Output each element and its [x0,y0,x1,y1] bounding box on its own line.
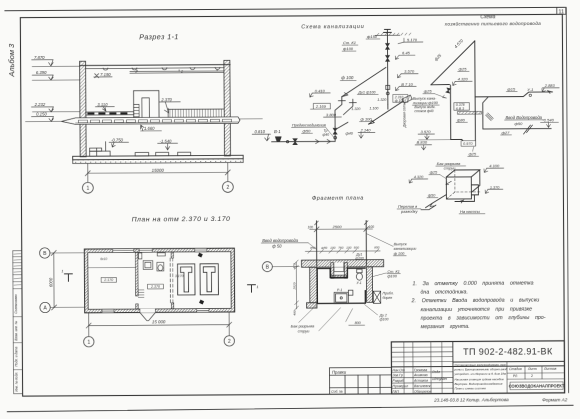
plan: grid bubble А (left) [40,302,85,313]
svg-text:ф25: ф25 [424,89,433,94]
section: right ground line [240,118,262,120]
section: ladder [134,104,140,123]
svg-text:СОЮЗВОДОКАНАЛПРОЕКТ: СОЮЗВОДОКАНАЛПРОЕКТ [509,383,565,388]
svg-text:15000: 15000 [152,168,165,173]
svg-text:Согласовано: Согласовано [14,294,18,314]
svg-text:11: 11 [558,9,564,15]
svg-text:ф50: ф50 [514,121,523,126]
fragment: right wall [366,267,372,303]
svg-text:2500: 2500 [332,224,343,229]
section: base slab [73,155,244,163]
sewer: second chain [343,99,356,115]
svg-text:ф 100: ф 100 [394,252,405,256]
sewer: stack fittings [385,43,389,94]
sewer: boxed 2.310 ф100 [393,94,408,102]
tank: flag 4.320 left [409,175,428,183]
svg-text:Внутрен. Водопроводоснабжения: Внутрен. Водопроводоснабжения [455,382,503,386]
section: bottom dimension 15000 [85,163,230,182]
svg-text:Подп. и дата: Подп. и дата [14,346,18,366]
fragment: interior pipe run (left+bottom) [317,268,365,303]
plan: middle room fixtures (sink, WC) [138,253,165,271]
svg-text:Альбом 3: Альбом 3 [7,43,16,78]
svg-text:23.148-03.8 12 Копир. Аль: 23.148-03.8 12 Копир. Альбертова [433,397,509,402]
svg-text:канализации: канализации [394,247,417,251]
svg-text:В.830: В.830 [417,140,428,145]
sewer: flag 3.800 [323,112,341,117]
section: left wall [80,61,87,157]
svg-text:100: 100 [369,225,375,229]
svg-text:2: 2 [180,69,183,73]
svg-text:-0.750: -0.750 [111,137,124,142]
tank: outlet pipe right [455,185,479,203]
fragment: shower tray [334,292,348,303]
svg-text:1: 1 [87,340,90,346]
svg-text:Проверил: Проверил [393,384,409,388]
svg-text:Правки: Правки [332,369,347,374]
tank: hidden dashed edges [446,170,480,199]
water: branch upper right [475,92,553,129]
svg-text:850: 850 [374,245,379,249]
section: 1.660 label [140,125,161,131]
svg-text:Ду1 ф100: Ду1 ф100 [357,90,376,94]
svg-text:6.45: 6.45 [402,50,411,55]
plan: grid bubble В (fragment leader) [262,261,299,271]
section: railing strip right [168,109,224,117]
svg-text:4.320: 4.320 [414,175,424,179]
paper bottom edge line [7,405,573,411]
svg-text:Ст. К1: Ст. К1 [343,40,356,45]
fragment: top wall band [302,260,384,279]
section: elevation mark 2.232 [31,102,80,112]
sewer: flag 2.140 [358,127,375,138]
svg-text:100: 100 [346,245,351,249]
svg-text:струи: струи [298,328,310,333]
title block: signature rows text [392,368,448,394]
fragment: left wall bottom foot [307,303,317,308]
fragment: inner U pipe in niche [334,263,344,271]
sheet number box top-right [557,7,566,14]
svg-text:ф50: ф50 [428,194,436,198]
svg-text:Схема: Схема [480,14,495,20]
svg-text:3.110: 3.110 [97,102,108,107]
section: 7.190 mark [94,72,113,78]
left stamp strip [13,251,23,394]
section: right wall [224,60,231,156]
svg-text:канализации уточняются при: канализации уточняются при привязке [421,306,533,313]
svg-text:-1.540: -1.540 [160,139,173,144]
plan: room level label 2.170 [101,277,116,282]
svg-text:Выпуск кана-: Выпуск кана- [413,97,437,101]
svg-text:ф100: ф100 [355,256,364,260]
svg-text:6х10: 6х10 [100,257,107,261]
svg-text:устройст. из сборного ж.б. 6см: устройст. из сборного ж.б. 6см 18м [453,372,506,376]
svg-text:1.320: 1.320 [351,107,360,111]
svg-text:2: 2 [531,374,533,378]
svg-text:0.150: 0.150 [36,111,47,116]
sewer: flag 0.410 [309,88,330,97]
svg-text:ТП 902-2-482.91-ВК: ТП 902-2-482.91-ВК [463,346,553,357]
svg-text:Ввод Водопровода: Ввод Водопровода [505,115,542,120]
svg-text:Предвосоединения: Предвосоединения [292,123,326,127]
section: elevation mark 0.150 + ground line [25,111,61,121]
fragment: interior pipe run (upper) [317,268,365,277]
svg-text:2.370: 2.370 [150,285,160,289]
svg-text:В 7 10: В 7 10 [401,82,413,87]
svg-text:Разрез 1-1: Разрез 1-1 [139,32,179,41]
plan: room level label 2.370 [148,284,164,289]
svg-text:100: 100 [330,246,335,250]
svg-text:800: 800 [355,321,361,325]
svg-text:2: 2 [226,185,229,191]
plan: section mark T1 right [247,285,255,293]
svg-text:Стадия: Стадия [509,367,522,371]
svg-text:5.170: 5.170 [407,37,418,42]
svg-text:7.190: 7.190 [100,72,111,77]
svg-text:2.883: 2.883 [544,83,556,88]
svg-text:-1.540: -1.540 [542,118,554,123]
sewer: left descending chain [333,97,346,142]
plan: black corner markers [198,253,203,258]
section: elevation mark 7.870 [32,55,80,67]
fragment: Ст К1 label [387,270,399,279]
svg-text:2.370: 2.370 [160,97,172,102]
svg-text:6000: 6000 [48,277,53,287]
plan: machine 1 (T-shaped) [178,264,195,295]
water: floor sleeve hatch [457,111,481,114]
revision table (left of title block) [329,367,391,394]
tank: overflow pipe left [425,195,446,208]
svg-text:0.410: 0.410 [315,88,326,93]
svg-text:2.170: 2.170 [103,278,113,282]
sewer: boxed 2.169 [310,103,330,109]
tank: isometric box [446,170,480,199]
svg-text:500: 500 [354,245,359,249]
svg-text:Схема канализации: Схема канализации [301,24,364,30]
svg-text:1.660: 1.660 [144,126,155,131]
svg-text:1: 1 [256,285,258,289]
sewer scheme: vent stack [375,29,411,104]
svg-text:Лодл: Лодл [431,370,440,374]
svg-text:ф 50: ф 50 [272,243,282,248]
svg-text:3.170: 3.170 [175,274,184,278]
svg-text:Взам. инв. №: Взам. инв. № [14,320,18,340]
svg-text:ф 100: ф 100 [360,116,372,121]
fragment: left vertical dims [294,260,298,310]
title block: upper-left small rows (изм/кол.уч) [391,342,453,394]
svg-text:0.970: 0.970 [463,142,473,146]
svg-text:ф50: ф50 [321,246,327,250]
section: basement equipment steps [90,142,111,157]
svg-text:6.В.3: 6.В.3 [456,107,464,111]
section: crane beam line with ticks [130,69,224,73]
water: riser triangle (hypotenuse) [431,41,476,146]
water: valve on riser A top [446,88,451,93]
plan: window openings top wall [113,248,207,252]
plan: section mark T1 left [64,274,72,282]
section: -0.750 label [109,137,129,147]
section: grid bubble 1 [82,182,93,193]
svg-text:Инв. № подл.: Инв. № подл. [14,372,18,392]
svg-text:ф25: ф25 [430,171,438,175]
svg-text:2.169: 2.169 [315,104,327,109]
svg-text:1: 1 [86,186,89,192]
svg-text:Листов: Листов [543,367,557,371]
svg-text:2.232: 2.232 [34,102,46,107]
svg-text:Фрагмент плана: Фрагмент плана [312,196,364,202]
svg-text:0.810: 0.810 [255,129,266,134]
svg-text:Василевск: Василевск [414,384,431,388]
fragment: sink [348,290,353,295]
fragment: toilet [356,269,362,280]
svg-text:ф25: ф25 [459,66,468,71]
svg-text:стоков ф40: стоков ф40 [414,109,433,113]
svg-text:Формат А2: Формат А2 [542,397,568,402]
water: flag -1.540 [540,118,558,128]
water: flag 2.883 [542,83,559,92]
svg-text:Зав.Гр: Зав.Гр [393,374,403,378]
svg-text:Р-1: Р-1 [337,288,342,292]
section: basement floor small blocks [135,152,191,156]
svg-text:Обгорелов: Обгорелов [414,390,432,394]
svg-text:ф40: ф40 [346,132,354,136]
water: bottom connection [451,139,476,145]
svg-text:План на отм 2.370 и 3.170: План на отм 2.370 и 3.170 [132,216,231,224]
fragment: Ду2 label bottom right [379,313,389,321]
svg-text:470: 470 [292,263,296,268]
section: left room floor strip (3.110) [86,112,134,115]
svg-text:ф40: ф40 [323,133,330,137]
svg-text:ф100: ф100 [387,274,397,278]
svg-text:ф 100: ф 100 [341,75,354,80]
section: -1.540 label [158,138,178,150]
svg-text:Дворовая сеть: Дворовая сеть [402,103,406,128]
fragment: dim 2500 between risers [310,226,373,231]
svg-text:В-1: В-1 [274,129,281,134]
plan: partition wall 2 [170,252,174,309]
sewer: wall sleeve (выпуск) [402,95,412,103]
svg-text:РЛ: РЛ [513,374,517,378]
svg-text:ф100: ф100 [380,318,389,322]
paper top edge line [5,7,565,10]
svg-text:ф15: ф15 [507,86,516,91]
plan: ввод водопровода label [261,238,316,250]
tank: flag 1.310 [485,185,503,193]
svg-text:борлн: борлн [383,296,393,300]
plan: vertical dim 6000 [51,250,56,310]
plan: machine 2 (T-shaped) [200,264,218,295]
svg-text:2. Отметки Ввода водопровода: 2. Отметки Ввода водопровода и выпуски [411,298,540,305]
fragment: left wall [310,267,317,303]
svg-text:Нач.От: Нач.От [392,368,404,372]
water: flag 4.320 [452,76,472,85]
svg-text:Ввод водопровода: Ввод водопровода [262,238,298,243]
section: roof slab [80,65,231,71]
svg-text:мерзания грунта.: мерзания грунта. [421,324,470,330]
section: elevation mark 6.390 [32,70,80,80]
water: flag 0.830 left [415,140,432,150]
sewer: main diagonal ф100 [342,67,386,96]
svg-text:3.800: 3.800 [326,112,337,117]
svg-text:4.100: 4.100 [489,163,500,168]
plan: outer walls (hatched) [84,248,234,313]
svg-text:480: 480 [292,310,296,315]
sewer: flag 5.170 [398,37,423,44]
svg-text:ф150: ф150 [367,34,378,39]
svg-text:План и схемы систем: План и схемы систем [455,386,486,390]
plan: window openings bottom wall [102,309,209,313]
notes text block [410,280,545,330]
plan: door opening bottom [140,309,156,313]
svg-text:1. За отметку 0.000 принята: 1. За отметку 0.000 принята отметка [412,281,533,288]
frame right double line [566,7,568,392]
svg-text:4.320: 4.320 [458,76,469,81]
svg-text:У-1: У-1 [356,281,361,285]
sewer: bottom run to outlet [272,138,336,144]
svg-text:ф80: ф80 [457,117,466,122]
svg-text:850: 850 [310,246,315,250]
svg-text:Соб. №: Соб. № [331,390,343,394]
svg-text:2: 2 [228,339,231,345]
sewer: elevation 0.810 + tap B-1 [252,129,281,142]
section: stair enclosure box [134,91,159,124]
svg-text:Лист: Лист [527,367,537,371]
svg-text:проекта в зависимости от г: проекта в зависимости от глубины про- [421,315,546,322]
water: flag 3.570 left [418,129,451,140]
svg-text:Громова: Громова [414,368,427,372]
svg-text:1: 1 [61,269,63,273]
sewer: outlet diagonal right [335,101,404,130]
sewer: flag 6.710 [395,82,416,91]
plan: grid bubble 1 bottom [84,336,94,346]
fragment: small dims row [305,249,380,253]
svg-text:Ст. К1: Ст. К1 [387,270,399,274]
svg-text:100: 100 [308,225,314,229]
svg-text:Выпуск: Выпуск [394,242,407,246]
section: main floor slab band [61,117,240,124]
svg-text:Акимова: Акимова [413,373,428,377]
plan: grid bubble 2 bottom [224,336,234,346]
section: 3.110 label [95,102,114,111]
svg-text:2.140: 2.140 [359,128,371,133]
svg-text:ф100: ф100 [343,46,354,51]
svg-text:6.390: 6.390 [36,70,47,75]
svg-text:3.570: 3.570 [404,69,415,74]
sewer: flag 3.570 [397,69,418,78]
svg-text:1: 1 [135,70,137,74]
water: diagonal hatch mark on lower branch [523,125,530,134]
svg-text:15 000: 15 000 [152,319,166,324]
svg-text:ф50: ф50 [303,128,312,133]
sewer: flag 6.45 [395,50,415,59]
svg-text:разводку: разводку [400,209,419,214]
svg-text:3.570: 3.570 [421,129,432,134]
svg-text:ф25: ф25 [469,152,477,156]
svg-text:идregister: идregister [432,377,448,381]
section: 2.370 label [159,97,180,113]
plan: grid bubble В (left) [40,248,85,259]
section: grid bubble 2 [222,182,233,193]
water: 0.970 box [461,141,476,146]
svg-text:7.870: 7.870 [34,55,45,60]
fragment: risers from above [316,221,366,266]
svg-text:1.370: 1.370 [490,186,500,190]
svg-text:На насосы: На насосы [460,209,480,214]
svg-text:2020: 2020 [292,282,296,290]
svg-text:Разраб: Разраб [393,379,404,383]
plan: bottom dimension 15000 [86,312,232,336]
svg-text:Астахов: Астахов [413,379,428,383]
svg-text:1.100: 1.100 [369,106,378,110]
svg-text:У-1: У-1 [527,87,533,92]
svg-text:1.320: 1.320 [377,98,386,102]
water: boxed 0.378 [454,103,470,111]
svg-text:дна отстойника.: дна отстойника. [420,289,467,296]
plan: partition wall 1 [135,252,138,309]
fragment: перелив leader to tank [421,205,436,210]
fragment: leader lines to labels [299,304,378,330]
fragment: прибор box right [373,291,380,303]
water: arrow on upper branch end [547,91,552,94]
svg-text:ГАП: ГАП [393,390,400,394]
title block: outer grid [391,341,564,394]
water: diag sleeve on выпуск line [486,113,494,121]
fragment: выпуск канализации label [394,242,418,256]
tank: inlet arrow top [446,181,452,185]
tank: flag 4.100 [484,163,504,172]
plan: door leaves [140,309,156,321]
svg-text:ф27: ф27 [502,130,511,135]
title block: description cell [507,361,565,393]
svg-text:760: 760 [338,245,343,249]
